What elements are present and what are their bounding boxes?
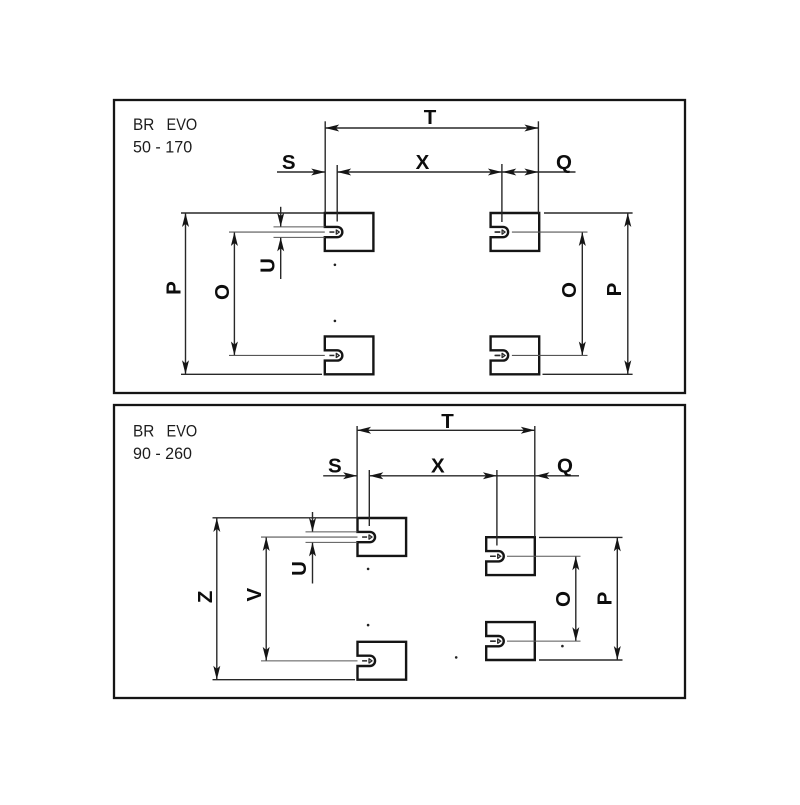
svg-text:EVO: EVO [167, 422, 198, 441]
svg-text:O: O [558, 282, 581, 298]
svg-text:P: P [593, 592, 616, 606]
svg-text:BR: BR [133, 115, 154, 134]
svg-text:Q: Q [557, 454, 573, 477]
svg-text:BR: BR [133, 422, 154, 441]
svg-text:Z: Z [194, 591, 217, 604]
svg-text:S: S [328, 454, 342, 477]
svg-text:U: U [288, 561, 311, 576]
svg-text:90 - 260: 90 - 260 [133, 444, 192, 463]
svg-text:P: P [603, 283, 626, 297]
svg-text:Q: Q [556, 151, 572, 174]
svg-text:T: T [441, 410, 454, 433]
svg-text:50 - 170: 50 - 170 [133, 138, 192, 157]
svg-text:EVO: EVO [167, 115, 198, 134]
svg-text:O: O [552, 591, 575, 607]
svg-text:U: U [256, 258, 279, 273]
svg-text:T: T [424, 106, 437, 129]
svg-text:X: X [431, 454, 445, 477]
svg-text:S: S [282, 151, 296, 174]
svg-text:O: O [211, 284, 234, 300]
svg-text:X: X [416, 151, 430, 174]
svg-text:V: V [243, 587, 266, 601]
svg-text:P: P [162, 281, 185, 295]
